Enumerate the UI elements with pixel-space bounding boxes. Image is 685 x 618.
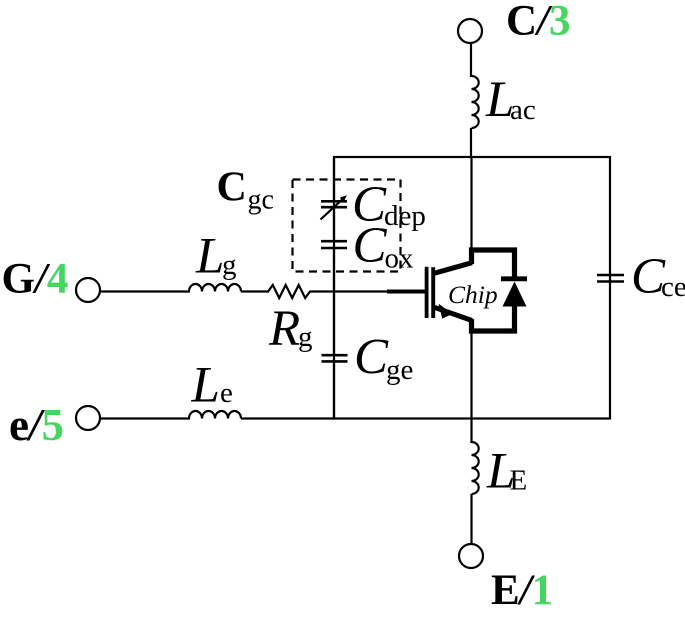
IGBT Q1 [387,250,515,331]
svg-text:C: C [354,330,389,386]
svg-text:E/1: E/1 [491,567,553,614]
wire L_E to E terminal [470,494,472,545]
wire IGBT emitter bar down through box bottom [470,332,472,444]
svg-text:e/5: e/5 [9,400,64,450]
capacitor C_ce [597,249,685,305]
svg-text:g: g [298,321,313,353]
gate bar [425,267,429,318]
emitter corner down to bottom bar [472,305,515,331]
svg-text:dep: dep [384,200,426,232]
terminal e/5 [9,400,100,450]
wire G terminal to L_g [100,290,191,292]
node gate-net vertical line: box left edge upper segment [333,157,335,200]
emitter diagonal with arrow [435,307,473,320]
svg-text:g: g [222,249,237,281]
svg-text:e: e [220,377,233,409]
terminal C/3 [458,0,571,45]
svg-text:ox: ox [385,243,415,275]
svg-text:ge: ge [386,354,413,386]
capacitor C_dep (variable) [321,177,426,233]
inductor L_E [472,442,528,500]
gate lead thick [387,290,426,294]
svg-text:L: L [195,229,224,285]
terminal E/1 [459,544,553,614]
wire L_e to box bottom-left corner [241,417,335,419]
terminal G/4 [2,256,101,303]
collector corner up to top bar [472,250,515,278]
svg-text:Chip: Chip [448,280,498,309]
body bar [431,267,435,318]
svg-text:ce: ce [661,271,685,303]
svg-text:R: R [268,301,300,357]
wire C_ox to C_ge (crosses gate wire at x=334) [333,249,335,355]
wire C_dep to C_ox [333,209,335,241]
wire R_g to IGBT gate (crosses node at x=334) [314,290,389,292]
svg-text:C: C [353,218,388,274]
module box [334,157,610,419]
wire L_g to R_g [241,290,269,292]
wire L_ac to module box [470,128,472,158]
capacitor C_ge [322,330,414,387]
inductor L_ac [472,72,536,128]
wire box top to IGBT collector bar [470,157,472,250]
resistor R_g [268,285,314,357]
inductor L_e [189,358,241,419]
svg-text:C: C [217,165,247,211]
diode D1 (freewheeling) [501,279,527,307]
wire C_ge to box bottom [333,363,335,419]
capacitor C_ox [321,218,414,275]
svg-text:E: E [510,465,528,497]
dashed box C_gc [217,165,401,272]
collector diagonal [435,263,473,274]
svg-text:C/3: C/3 [506,0,571,45]
svg-text:G/4: G/4 [2,256,69,303]
wire e terminal to L_e [100,417,191,419]
svg-text:gc: gc [248,185,274,216]
svg-text:L: L [191,358,220,414]
wire collector terminal to L_ac [470,43,472,78]
inductor L_g [189,229,241,292]
svg-text:ac: ac [510,94,536,126]
